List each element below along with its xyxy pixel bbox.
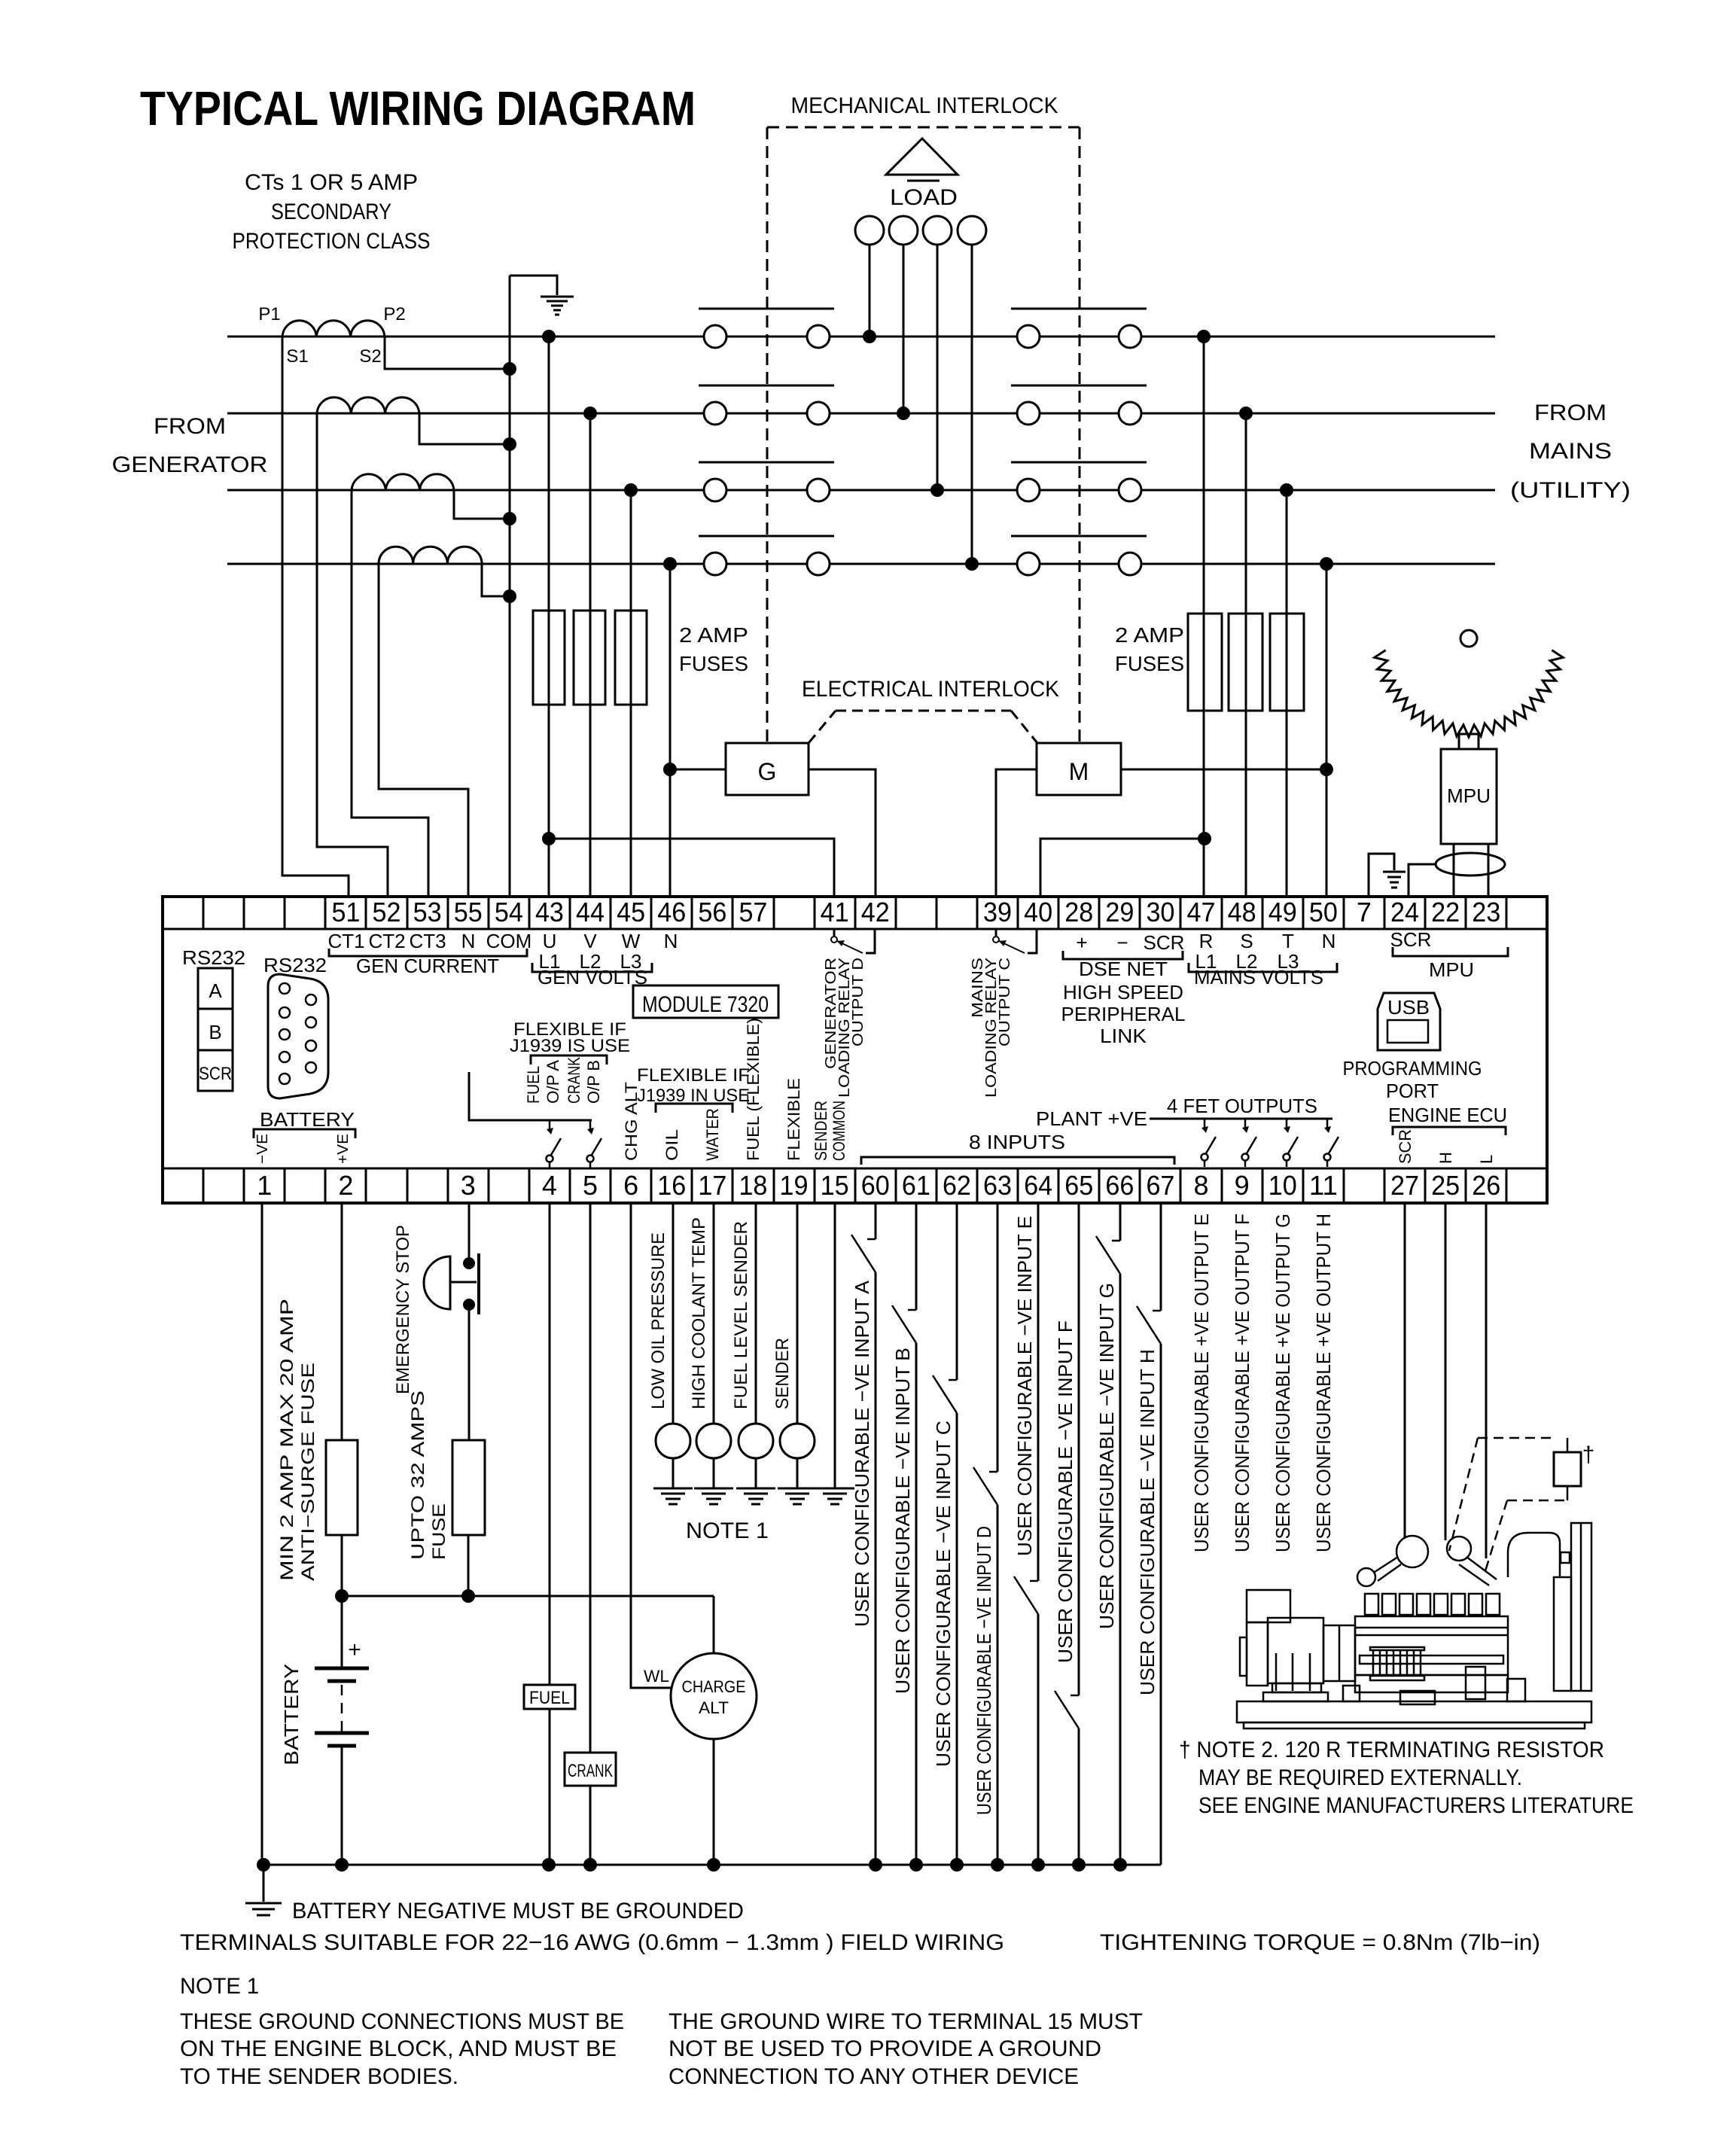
junction ground rail xyxy=(950,1858,964,1872)
wire terminal 17 to sender xyxy=(713,1203,715,1424)
gear center hole xyxy=(1460,630,1477,647)
wire gen volts sense to terminal xyxy=(630,490,632,897)
svg-text:41: 41 xyxy=(821,897,849,927)
svg-text:CT1: CT1 xyxy=(327,930,364,952)
svg-text:†: † xyxy=(1582,1442,1595,1467)
wire load L3 xyxy=(937,245,939,490)
svg-text:17: 17 xyxy=(698,1170,726,1201)
junction load tap L2 xyxy=(897,407,910,420)
svg-text:HIGH COOLANT TEMP: HIGH COOLANT TEMP xyxy=(689,1217,709,1409)
svg-text:+VE: +VE xyxy=(335,1134,352,1164)
svg-text:MAY BE REQUIRED EXTERNALLY.: MAY BE REQUIRED EXTERNALLY. xyxy=(1198,1765,1522,1790)
svg-text:40: 40 xyxy=(1024,897,1052,927)
svg-text:B: B xyxy=(209,1021,221,1043)
fuse mains 2A F4 xyxy=(1188,614,1222,711)
junction mains L1 to relay 40 xyxy=(1198,832,1211,845)
contactor coil M xyxy=(1037,743,1121,795)
svg-text:CHARGE: CHARGE xyxy=(682,1677,746,1696)
svg-text:61: 61 xyxy=(902,1170,930,1201)
wire input F lower xyxy=(1078,1728,1080,1865)
wire input H upper (terminal 67) xyxy=(1160,1203,1162,1311)
ground sender common xyxy=(815,1488,854,1490)
svg-text:A: A xyxy=(209,979,222,1002)
svg-text:5: 5 xyxy=(583,1170,598,1201)
junction mains volts tap L3 xyxy=(1280,483,1293,497)
svg-text:16: 16 xyxy=(657,1170,686,1201)
svg-text:19: 19 xyxy=(780,1170,809,1201)
svg-text:USER CONFIGURABLE −VE INPUT F: USER CONFIGURABLE −VE INPUT F xyxy=(1054,1320,1077,1663)
wire mains bus L1 xyxy=(1141,336,1495,338)
svg-text:CTs 1 OR 5 AMP: CTs 1 OR 5 AMP xyxy=(245,170,418,195)
wire input G upper (terminal 66) xyxy=(1119,1203,1122,1241)
svg-text:SENDER: SENDER xyxy=(772,1338,793,1409)
junction load tap L1 xyxy=(863,330,876,343)
svg-text:(UTILITY): (UTILITY) xyxy=(1510,478,1631,503)
wire mains bus L4 xyxy=(1141,563,1495,565)
svg-text:THE GROUND WIRE TO TERMINAL 15: THE GROUND WIRE TO TERMINAL 15 MUST xyxy=(669,2009,1143,2034)
wire CT4 S1 to terminal xyxy=(379,564,468,897)
svg-text:60: 60 xyxy=(861,1170,890,1201)
wire terminal 25 H to engine xyxy=(1445,1203,1447,1540)
svg-text:COMMON: COMMON xyxy=(830,1101,848,1161)
junction 32A fuse to +ve xyxy=(461,1589,475,1603)
svg-text:R: R xyxy=(1199,930,1214,952)
svg-text:56: 56 xyxy=(698,897,726,927)
wire gen bus L1 xyxy=(227,336,704,338)
junction mains volts tap L4 xyxy=(1320,557,1333,571)
wire terminal 2 to battery fuse xyxy=(341,1203,343,1440)
svg-text:EMERGENCY STOP: EMERGENCY STOP xyxy=(393,1225,413,1394)
svg-text:CONNECTION TO ANY OTHER DEVICE: CONNECTION TO ANY OTHER DEVICE xyxy=(669,2064,1079,2089)
svg-text:USER CONFIGURABLE −VE INPUT A: USER CONFIGURABLE −VE INPUT A xyxy=(851,1280,873,1627)
wire 32A fuse to +ve node xyxy=(468,1535,470,1596)
svg-text:1: 1 xyxy=(257,1170,272,1201)
wire CT common to terminal 54 xyxy=(509,276,511,897)
svg-text:USER CONFIGURABLE +VE OUTPUT G: USER CONFIGURABLE +VE OUTPUT G xyxy=(1272,1214,1294,1552)
svg-text:ANTI−SURGE FUSE: ANTI−SURGE FUSE xyxy=(298,1363,318,1581)
terminal strip top row dividers xyxy=(203,897,205,929)
wire +ve distribution xyxy=(342,1595,714,1598)
GEN CURRENT bracket xyxy=(329,949,527,956)
junction load tap L4 xyxy=(965,557,979,571)
wire CT1 S2 tap xyxy=(385,337,510,369)
svg-text:BATTERY: BATTERY xyxy=(260,1108,355,1131)
svg-text:FUEL: FUEL xyxy=(524,1066,543,1104)
svg-text:6: 6 xyxy=(623,1170,638,1201)
wire rail left end to ground xyxy=(263,1865,265,1902)
switch input A xyxy=(851,1235,876,1272)
svg-text:55: 55 xyxy=(454,897,483,927)
fuse gen 2A F1 xyxy=(533,611,565,705)
svg-text:OUTPUT D: OUTPUT D xyxy=(850,958,866,1046)
wire input D lower xyxy=(997,1505,999,1865)
svg-text:OUTPUT C: OUTPUT C xyxy=(997,958,1013,1046)
breaker mains pole L3 xyxy=(1017,479,1040,501)
svg-text:USER CONFIGURABLE +VE OUTPUT H: USER CONFIGURABLE +VE OUTPUT H xyxy=(1312,1214,1335,1552)
load terminal circle L2 xyxy=(889,216,918,245)
svg-text:39: 39 xyxy=(983,897,1012,927)
svg-text:66: 66 xyxy=(1105,1170,1134,1201)
ground sender 1 xyxy=(653,1488,693,1490)
svg-text:44: 44 xyxy=(576,897,605,927)
svg-text:V: V xyxy=(583,930,597,952)
switch input C xyxy=(933,1375,957,1413)
svg-text:26: 26 xyxy=(1472,1170,1500,1201)
svg-text:CT2: CT2 xyxy=(368,930,405,952)
svg-text:−: − xyxy=(1116,931,1128,954)
svg-text:TO THE SENDER BODIES.: TO THE SENDER BODIES. xyxy=(180,2064,458,2089)
wire CT3 S1 to terminal xyxy=(352,490,428,897)
svg-text:HIGH SPEED: HIGH SPEED xyxy=(1063,981,1183,1004)
svg-text:N: N xyxy=(1322,930,1336,952)
wire between breakers L3 xyxy=(830,489,1017,492)
junction ground rail xyxy=(909,1858,923,1872)
resistor 120R terminating xyxy=(1554,1452,1581,1486)
junction CT2 S2 on common xyxy=(503,437,516,451)
svg-text:64: 64 xyxy=(1024,1170,1052,1201)
svg-text:GEN CURRENT: GEN CURRENT xyxy=(356,955,499,977)
svg-text:LOW OIL PRESSURE: LOW OIL PRESSURE xyxy=(648,1232,669,1409)
svg-text:USER CONFIGURABLE +VE OUTPUT E: USER CONFIGURABLE +VE OUTPUT E xyxy=(1190,1214,1213,1552)
svg-text:2: 2 xyxy=(338,1170,353,1201)
svg-text:FUEL LEVEL SENDER: FUEL LEVEL SENDER xyxy=(731,1221,751,1409)
svg-text:T: T xyxy=(1282,930,1294,952)
svg-text:UPTO 32 AMPS: UPTO 32 AMPS xyxy=(408,1390,428,1560)
FUEL solenoid box xyxy=(524,1685,575,1709)
LOAD arrow xyxy=(886,139,958,175)
svg-text:L: L xyxy=(1477,1155,1496,1164)
svg-text:WL: WL xyxy=(644,1667,669,1686)
svg-text:2 AMP: 2 AMP xyxy=(679,623,748,647)
svg-text:PORT: PORT xyxy=(1386,1080,1439,1102)
svg-text:MODULE 7320: MODULE 7320 xyxy=(642,992,769,1017)
svg-text:11: 11 xyxy=(1309,1170,1338,1201)
charge alternator xyxy=(671,1653,757,1739)
battery negative ground rail xyxy=(263,1864,1161,1866)
breaker mains pole L4 xyxy=(1017,553,1040,575)
svg-text:USER CONFIGURABLE −VE INPUT C: USER CONFIGURABLE −VE INPUT C xyxy=(932,1421,955,1767)
junction ground rail xyxy=(991,1858,1004,1872)
svg-text:SCR: SCR xyxy=(1390,928,1432,951)
svg-text:PROTECTION CLASS: PROTECTION CLASS xyxy=(233,229,431,254)
svg-text:PERIPHERAL: PERIPHERAL xyxy=(1061,1003,1186,1025)
wire load L4 xyxy=(971,245,973,564)
flywheel ring gear xyxy=(1375,650,1563,737)
svg-text:+: + xyxy=(1076,931,1087,954)
switch input F xyxy=(1055,1691,1079,1728)
junction gen volts tap L4 xyxy=(663,557,677,571)
wire input F upper (terminal 65) xyxy=(1078,1203,1080,1695)
DSE NET bracket xyxy=(1063,951,1183,959)
switch input H xyxy=(1137,1306,1161,1344)
junction CT4 S2 on common xyxy=(503,589,516,603)
wire mains volts sense to terminal xyxy=(1286,490,1288,897)
svg-text:SENDER: SENDER xyxy=(812,1101,830,1161)
wire terminal 7 to chassis ground xyxy=(1369,854,1394,897)
svg-text:FROM: FROM xyxy=(154,414,226,439)
wire CT common earth bond xyxy=(510,276,557,295)
emergency stop button xyxy=(463,1257,475,1269)
MPU cable shield ellipse xyxy=(1436,853,1505,876)
svg-text:65: 65 xyxy=(1064,1170,1093,1201)
svg-text:RS232: RS232 xyxy=(182,946,245,969)
svg-text:4: 4 xyxy=(542,1170,557,1201)
svg-text:22: 22 xyxy=(1431,897,1460,927)
svg-text:LOAD: LOAD xyxy=(890,185,958,210)
junction U/L1 to relay 41 xyxy=(542,832,556,845)
svg-text:2 AMP: 2 AMP xyxy=(1115,623,1184,647)
svg-text:FLEXIBLE: FLEXIBLE xyxy=(784,1078,803,1161)
battery xyxy=(341,1596,343,1668)
ground CT common xyxy=(541,296,574,298)
svg-text:FUSES: FUSES xyxy=(1115,652,1184,675)
svg-text:FUSE: FUSE xyxy=(429,1503,449,1560)
wire terminal 3 to e-stop xyxy=(468,1203,471,1257)
wire gen bus L4 xyxy=(227,563,704,565)
GEN VOLTS bracket xyxy=(532,963,652,972)
svg-text:USER CONFIGURABLE −VE INPUT D: USER CONFIGURABLE −VE INPUT D xyxy=(973,1526,995,1815)
svg-text:RS232: RS232 xyxy=(263,954,327,976)
wire CT3 S2 tap xyxy=(454,490,510,519)
wire +ve to charge alt B+ xyxy=(713,1596,715,1653)
junction ground rail xyxy=(542,1858,556,1872)
svg-text:18: 18 xyxy=(739,1170,767,1201)
wire terminal 5 to CRANK solenoid xyxy=(589,1203,592,1753)
svg-text:M: M xyxy=(1069,758,1089,785)
svg-text:8 INPUTS: 8 INPUTS xyxy=(969,1131,1065,1153)
MAINS VOLTS bracket xyxy=(1189,963,1337,972)
contactor coil G xyxy=(726,743,809,795)
junction gen volts tap L2 xyxy=(583,407,597,420)
junction gen volts tap L3 xyxy=(624,483,638,497)
CT coil CT3 on bus L3 xyxy=(352,474,454,490)
wire input E upper (terminal 64) xyxy=(1037,1203,1040,1581)
svg-text:DSE NET: DSE NET xyxy=(1079,958,1168,980)
svg-text:S1: S1 xyxy=(286,346,308,367)
svg-text:MECHANICAL INTERLOCK: MECHANICAL INTERLOCK xyxy=(791,93,1058,118)
CAN termination resistor dashed link xyxy=(1478,1437,1552,1439)
svg-text:28: 28 xyxy=(1064,897,1093,927)
wire input H lower xyxy=(1160,1344,1162,1865)
wire e-stop to 32A fuse xyxy=(468,1311,471,1440)
wire between breakers L4 xyxy=(830,563,1017,565)
junction CT1 S2 on common xyxy=(503,362,516,376)
load terminal circle L4 xyxy=(958,216,986,245)
svg-text:57: 57 xyxy=(739,897,767,927)
switch FET output G (terminal 10) xyxy=(1286,1119,1288,1129)
switch input E xyxy=(1014,1576,1038,1614)
svg-text:TYPICAL WIRING DIAGRAM: TYPICAL WIRING DIAGRAM xyxy=(140,81,696,136)
svg-text:MIN 2 AMP MAX 20 AMP: MIN 2 AMP MAX 20 AMP xyxy=(277,1299,297,1581)
svg-text:FLEXIBLE IF: FLEXIBLE IF xyxy=(637,1065,750,1086)
wire mains volts sense to terminal xyxy=(1203,337,1205,897)
svg-text:S2: S2 xyxy=(359,346,381,367)
svg-text:50: 50 xyxy=(1309,897,1338,927)
load terminal circle L3 xyxy=(923,216,952,245)
svg-text:3: 3 xyxy=(461,1170,476,1201)
svg-text:MPU: MPU xyxy=(1429,958,1474,981)
wire mains volts sense to terminal xyxy=(1245,413,1247,897)
junction CT3 S2 on common xyxy=(503,512,516,525)
svg-text:46: 46 xyxy=(657,897,686,927)
wire CT2 S1 to terminal xyxy=(317,413,388,897)
svg-text:† NOTE 2. 120 R TERMINATING RE: † NOTE 2. 120 R TERMINATING RESISTOR xyxy=(1179,1738,1604,1762)
svg-text:24: 24 xyxy=(1390,897,1419,927)
junction gen N to G coil xyxy=(663,763,677,776)
wire input A upper (terminal 60) xyxy=(875,1203,877,1239)
wire between breakers L2 xyxy=(830,413,1017,415)
svg-text:G: G xyxy=(758,758,777,785)
junction battery +ve xyxy=(335,1589,349,1603)
svg-text:51: 51 xyxy=(331,897,360,927)
wire terminal 1 to ground rail xyxy=(261,1203,263,1865)
ground sender 4 xyxy=(778,1488,817,1490)
svg-text:USB: USB xyxy=(1387,996,1430,1019)
wire terminal 41 to gen L1 fuse xyxy=(549,839,834,897)
relay contact glyph 39/40 xyxy=(995,929,997,936)
wire between breakers L1 xyxy=(830,336,1017,338)
genset engine drawing xyxy=(1237,1523,1591,1728)
wire terminal 4 to FUEL solenoid xyxy=(549,1203,551,1685)
sender circle (HIGH COOLANT TEMP) xyxy=(696,1424,731,1458)
sender circle (LOW OIL PRESSURE) xyxy=(656,1424,690,1458)
svg-text:4 FET OUTPUTS: 4 FET OUTPUTS xyxy=(1167,1095,1317,1117)
breaker gen pole L4 xyxy=(704,553,726,575)
junction load tap L3 xyxy=(930,483,944,497)
svg-text:USER CONFIGURABLE +VE OUTPUT F: USER CONFIGURABLE +VE OUTPUT F xyxy=(1231,1214,1253,1552)
svg-text:9: 9 xyxy=(1235,1170,1250,1201)
wire CT2 S2 tap xyxy=(419,413,510,444)
wire charge alt to rail xyxy=(713,1739,715,1865)
wire CT1 S1 to terminal xyxy=(282,337,349,897)
svg-text:27: 27 xyxy=(1390,1170,1419,1201)
svg-text:48: 48 xyxy=(1228,897,1256,927)
switch FET output E (terminal 8) xyxy=(1204,1119,1206,1129)
svg-text:ENGINE ECU: ENGINE ECU xyxy=(1388,1104,1507,1126)
svg-text:P1: P1 xyxy=(258,304,280,324)
svg-text:SECONDARY: SECONDARY xyxy=(271,199,391,224)
svg-text:J1939 IS USE: J1939 IS USE xyxy=(510,1036,630,1056)
svg-text:BATTERY: BATTERY xyxy=(280,1664,303,1765)
fuse mains 2A F6 xyxy=(1270,614,1304,711)
svg-text:O/P A: O/P A xyxy=(544,1060,562,1104)
junction ground rail xyxy=(257,1858,270,1872)
wire input E lower xyxy=(1037,1614,1040,1865)
junction ground rail xyxy=(583,1858,597,1872)
svg-text:45: 45 xyxy=(617,897,645,927)
breaker gen pole L1 xyxy=(704,325,726,348)
svg-text:67: 67 xyxy=(1146,1170,1174,1201)
wire gen volts sense to terminal xyxy=(669,564,672,897)
svg-text:29: 29 xyxy=(1105,897,1134,927)
svg-text:ELECTRICAL INTERLOCK: ELECTRICAL INTERLOCK xyxy=(802,677,1059,702)
junction gen volts tap L1 xyxy=(542,330,556,343)
svg-text:O/P B: O/P B xyxy=(584,1060,603,1104)
svg-text:25: 25 xyxy=(1431,1170,1460,1201)
svg-text:SCR: SCR xyxy=(1144,931,1185,954)
svg-text:MAINS: MAINS xyxy=(1529,439,1612,464)
wire fuse to +ve node xyxy=(341,1535,343,1596)
svg-text:N: N xyxy=(664,930,678,952)
svg-text:CT3: CT3 xyxy=(409,930,446,952)
wire gen volts sense to terminal xyxy=(589,413,592,897)
svg-text:−VE: −VE xyxy=(254,1134,271,1164)
breaker mains pole L1 xyxy=(1017,325,1040,348)
wire input C lower xyxy=(956,1413,958,1865)
junction ground rail xyxy=(869,1858,882,1872)
wire input A lower xyxy=(875,1272,877,1865)
svg-text:GEN VOLTS: GEN VOLTS xyxy=(538,966,647,988)
svg-text:PLANT +VE: PLANT +VE xyxy=(1036,1107,1147,1130)
wire gen bus L3 xyxy=(227,489,704,492)
fuse gen 2A F2 xyxy=(574,611,605,705)
svg-text:8: 8 xyxy=(1194,1170,1209,1201)
USB programming port icon xyxy=(1378,993,1440,1050)
svg-text:USER CONFIGURABLE −VE INPUT H: USER CONFIGURABLE −VE INPUT H xyxy=(1136,1349,1159,1695)
svg-text:U: U xyxy=(543,930,557,952)
wire mains bus L3 xyxy=(1141,489,1495,492)
switch output A (terminal 4) xyxy=(549,1120,551,1131)
sender circle (FUEL LEVEL SENDER) xyxy=(739,1424,773,1458)
ground sender 3 xyxy=(736,1488,775,1490)
svg-text:15: 15 xyxy=(821,1170,849,1201)
svg-text:ON THE ENGINE BLOCK, AND MUST: ON THE ENGINE BLOCK, AND MUST BE xyxy=(180,2036,617,2061)
junction ground rail xyxy=(335,1858,349,1872)
junction ground rail xyxy=(1072,1858,1086,1872)
switch input D xyxy=(973,1467,997,1505)
svg-text:SEE ENGINE MANUFACTURERS LITER: SEE ENGINE MANUFACTURERS LITERATURE xyxy=(1198,1793,1634,1818)
svg-text:N: N xyxy=(461,930,476,952)
wire terminal 19 to sender xyxy=(796,1203,799,1424)
svg-text:P2: P2 xyxy=(383,304,405,324)
svg-text:LINK: LINK xyxy=(1100,1025,1147,1047)
CT coil CT4 on bus L4 xyxy=(379,547,482,564)
svg-text:USER CONFIGURABLE −VE INPUT B: USER CONFIGURABLE −VE INPUT B xyxy=(891,1348,914,1694)
wire terminal 6 (WL) to charge alt xyxy=(631,1203,671,1688)
svg-text:OIL: OIL xyxy=(662,1129,681,1161)
svg-text:30: 30 xyxy=(1146,897,1174,927)
wire terminal 15 sender common to ground xyxy=(834,1203,836,1488)
MPU body xyxy=(1459,734,1479,749)
svg-text:NOT BE USED TO PROVIDE A GROUN: NOT BE USED TO PROVIDE A GROUND xyxy=(669,2036,1101,2061)
junction mains N to M coil xyxy=(1320,763,1333,776)
svg-text:USER CONFIGURABLE −VE INPUT E: USER CONFIGURABLE −VE INPUT E xyxy=(1013,1216,1036,1556)
junction ground rail xyxy=(707,1858,720,1872)
wire terminal 27 SCR to engine xyxy=(1404,1203,1406,1537)
breaker gen pole L3 xyxy=(704,479,726,501)
wire input B upper (terminal 61) xyxy=(915,1203,918,1310)
svg-text:FUEL (FLEXIBLE): FUEL (FLEXIBLE) xyxy=(744,1018,763,1161)
CT coil CT2 on bus L2 xyxy=(317,397,419,413)
svg-text:49: 49 xyxy=(1268,897,1297,927)
svg-text:W: W xyxy=(622,930,641,952)
wire G coil left to gen N xyxy=(670,769,726,771)
fuse upto 32 amps xyxy=(452,1440,485,1535)
wire terminal 24 to shield xyxy=(1409,864,1436,897)
wire terminal 26 L to engine xyxy=(1485,1203,1488,1558)
wire CT4 S2 tap xyxy=(482,564,510,596)
junction ground rail xyxy=(1031,1858,1045,1872)
ground battery negative xyxy=(245,1902,282,1905)
sender circle (SENDER) xyxy=(780,1424,815,1458)
wire gen bus L2 xyxy=(227,413,704,415)
wire input G lower xyxy=(1119,1274,1122,1865)
breaker mains pole L2 xyxy=(1017,402,1040,425)
wire input D upper (terminal 63) xyxy=(997,1203,999,1472)
svg-text:+: + xyxy=(348,1637,361,1662)
svg-text:62: 62 xyxy=(943,1170,971,1201)
svg-text:42: 42 xyxy=(861,897,890,927)
